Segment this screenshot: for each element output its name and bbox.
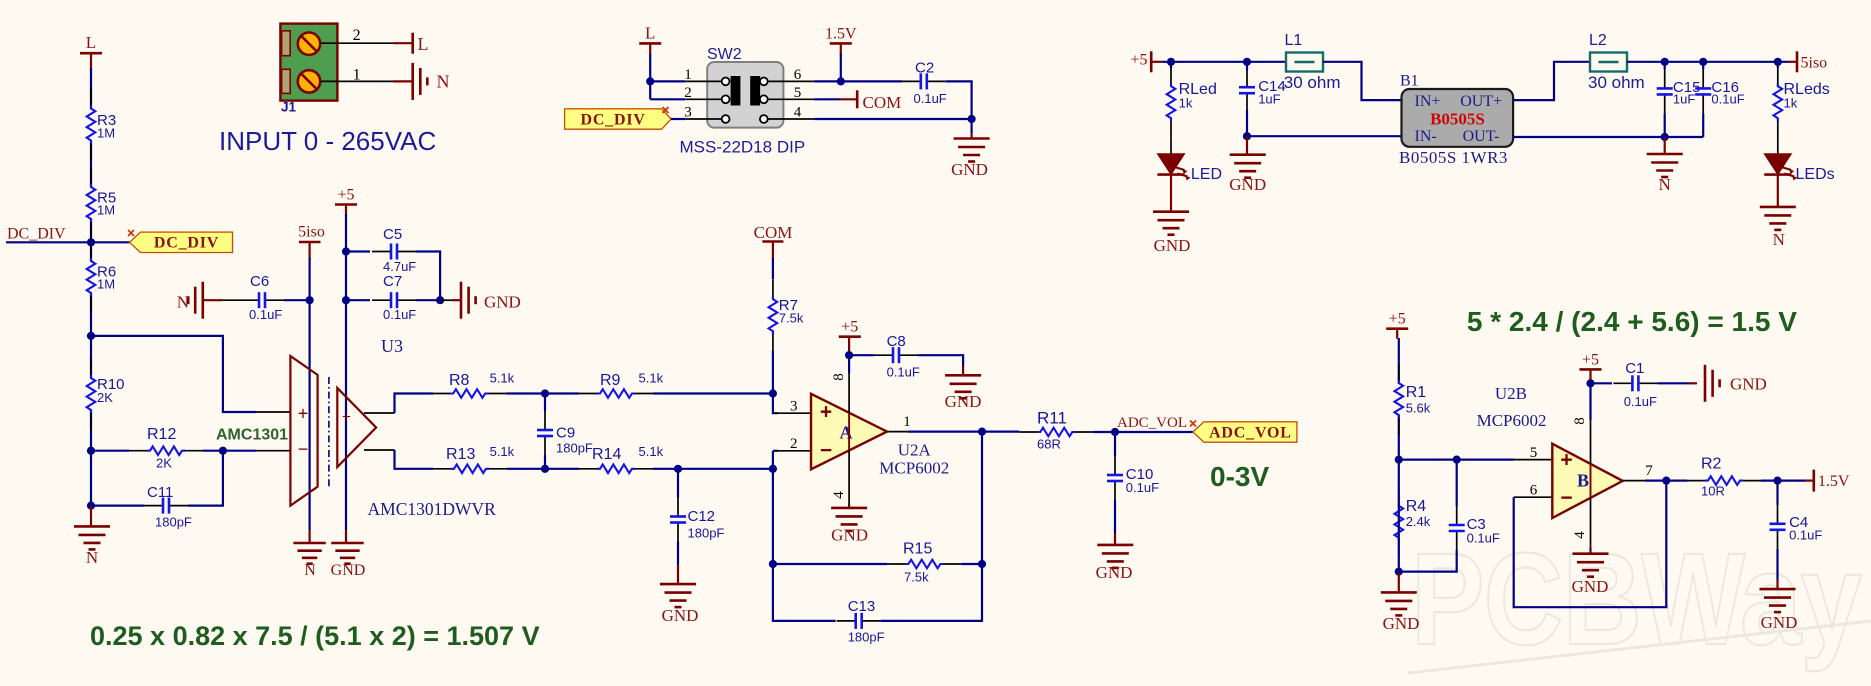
svg-text:8: 8	[831, 373, 847, 381]
svg-text:R9: R9	[600, 372, 621, 389]
svg-text:4: 4	[794, 105, 802, 121]
svg-text:GND: GND	[662, 606, 699, 625]
svg-text:R1: R1	[1406, 384, 1427, 401]
svg-text:5.1k: 5.1k	[639, 444, 664, 459]
svg-text:1k: 1k	[1784, 96, 1798, 111]
svg-text:L: L	[645, 23, 655, 42]
svg-text:R2: R2	[1701, 456, 1722, 473]
svg-text:B0505S: B0505S	[1430, 110, 1485, 129]
svg-text:C12: C12	[688, 508, 716, 525]
svg-text:GND: GND	[831, 526, 868, 545]
svg-text:MCP6002: MCP6002	[1477, 411, 1547, 430]
svg-text:2: 2	[353, 27, 361, 44]
svg-text:C6: C6	[250, 273, 269, 290]
svg-text:GND: GND	[1383, 614, 1420, 633]
svg-text:B1: B1	[1400, 73, 1419, 90]
svg-text:GND: GND	[1096, 563, 1133, 582]
svg-text:1: 1	[684, 67, 692, 83]
svg-text:COM: COM	[863, 93, 902, 112]
svg-text:R4: R4	[1406, 498, 1427, 515]
svg-text:4: 4	[831, 491, 847, 499]
svg-text:GND: GND	[945, 392, 982, 411]
svg-text:+5: +5	[841, 319, 858, 336]
svg-text:8: 8	[1572, 417, 1588, 425]
svg-text:7.5k: 7.5k	[779, 311, 804, 326]
svg-text:N: N	[1773, 230, 1785, 249]
svg-text:U2A: U2A	[898, 441, 932, 460]
svg-text:0.1uF: 0.1uF	[914, 91, 947, 106]
svg-text:1k: 1k	[1179, 96, 1193, 111]
svg-text:5: 5	[794, 85, 802, 101]
svg-text:5iso: 5iso	[298, 224, 325, 241]
svg-text:COM: COM	[754, 223, 793, 242]
svg-text:7.5k: 7.5k	[904, 570, 929, 585]
svg-text:ADC_VOL: ADC_VOL	[1117, 415, 1187, 431]
svg-text:7: 7	[1645, 463, 1653, 479]
svg-text:GND: GND	[1572, 577, 1609, 596]
svg-text:2: 2	[790, 436, 798, 452]
svg-text:0.1uF: 0.1uF	[887, 365, 920, 380]
svg-text:DC_DIV: DC_DIV	[580, 111, 645, 128]
svg-text:OUT-: OUT-	[1463, 128, 1500, 145]
svg-text:0.1uF: 0.1uF	[249, 307, 282, 322]
svg-text:N: N	[86, 548, 98, 567]
svg-text:AMC1301: AMC1301	[216, 427, 288, 444]
svg-text:1: 1	[353, 67, 361, 84]
svg-text:MSS-22D18 DIP: MSS-22D18 DIP	[680, 138, 806, 157]
svg-text:0-3V: 0-3V	[1210, 461, 1269, 492]
svg-text:L2: L2	[1589, 32, 1607, 49]
svg-text:180pF: 180pF	[688, 526, 725, 541]
svg-text:0.1uF: 0.1uF	[383, 307, 416, 322]
svg-text:6: 6	[794, 67, 802, 83]
svg-text:3: 3	[790, 399, 798, 415]
svg-text:5 * 2.4 / (2.4 + 5.6) = 1.5 V: 5 * 2.4 / (2.4 + 5.6) = 1.5 V	[1467, 306, 1797, 337]
svg-text:GND: GND	[1761, 613, 1798, 632]
svg-text:30 ohm: 30 ohm	[1284, 73, 1341, 92]
svg-text:+5: +5	[337, 187, 354, 204]
svg-text:0.1uF: 0.1uF	[1624, 394, 1657, 409]
svg-text:5iso: 5iso	[1801, 55, 1828, 72]
svg-text:5: 5	[1530, 445, 1538, 461]
svg-text:+: +	[820, 401, 832, 424]
svg-text:6: 6	[1530, 483, 1538, 499]
svg-text:L1: L1	[1285, 32, 1303, 49]
svg-text:5.1k: 5.1k	[639, 371, 664, 386]
svg-text:2K: 2K	[156, 456, 172, 471]
svg-text:0.1uF: 0.1uF	[1126, 480, 1159, 495]
svg-text:1.5V: 1.5V	[1818, 473, 1850, 490]
svg-text:R8: R8	[449, 372, 470, 389]
svg-text:2: 2	[684, 85, 692, 101]
svg-text:MCP6002: MCP6002	[879, 459, 949, 478]
svg-text:R12: R12	[147, 426, 176, 443]
svg-text:N: N	[437, 72, 450, 92]
svg-text:J1: J1	[281, 100, 297, 115]
svg-text:LEDs: LEDs	[1796, 166, 1835, 183]
svg-text:−: −	[298, 439, 309, 459]
svg-text:R13: R13	[446, 446, 475, 463]
svg-text:PCBWay: PCBWay	[1411, 525, 1862, 672]
svg-text:1: 1	[903, 414, 911, 430]
svg-text:68R: 68R	[1037, 437, 1061, 452]
svg-text:0.1uF: 0.1uF	[1711, 92, 1744, 107]
svg-text:INPUT 0 - 265VAC: INPUT 0 - 265VAC	[219, 126, 436, 156]
svg-text:C2: C2	[915, 60, 934, 77]
svg-text:0.25 x 0.82 x 7.5 / (5.1 x 2): 0.25 x 0.82 x 7.5 / (5.1 x 2) = 1.507 V	[90, 621, 540, 651]
svg-text:GND: GND	[1229, 175, 1266, 194]
svg-text:C9: C9	[556, 425, 575, 442]
svg-text:+5: +5	[1130, 52, 1147, 69]
svg-text:4.7uF: 4.7uF	[383, 259, 416, 274]
svg-text:DC_DIV: DC_DIV	[7, 226, 66, 243]
svg-text:+5: +5	[1389, 311, 1406, 328]
svg-text:IN+: IN+	[1415, 93, 1441, 110]
svg-text:1M: 1M	[97, 203, 115, 218]
svg-text:3: 3	[684, 105, 692, 121]
svg-text:4: 4	[1572, 531, 1588, 539]
svg-text:L: L	[418, 34, 429, 54]
svg-text:0.1uF: 0.1uF	[1467, 531, 1500, 546]
svg-text:2K: 2K	[97, 390, 113, 405]
svg-text:ADC_VOL: ADC_VOL	[1209, 424, 1292, 441]
svg-text:2.4k: 2.4k	[1406, 514, 1431, 529]
svg-text:C11: C11	[147, 484, 173, 501]
svg-text:GND: GND	[484, 293, 521, 312]
svg-text:B: B	[1577, 471, 1589, 491]
svg-text:GND: GND	[1730, 375, 1767, 394]
svg-text:GND: GND	[331, 562, 366, 579]
svg-text:N: N	[177, 293, 189, 312]
svg-text:GND: GND	[951, 160, 988, 179]
svg-text:OUT+: OUT+	[1460, 93, 1502, 110]
svg-text:C7: C7	[383, 273, 402, 290]
svg-text:C13: C13	[848, 598, 876, 615]
svg-text:R14: R14	[592, 446, 621, 463]
svg-text:A: A	[840, 423, 853, 443]
svg-text:180pF: 180pF	[155, 515, 192, 530]
svg-text:5.1k: 5.1k	[490, 371, 515, 386]
svg-text:+5: +5	[1582, 351, 1599, 368]
svg-text:SW2: SW2	[707, 46, 742, 63]
svg-text:0.1uF: 0.1uF	[1789, 528, 1822, 543]
svg-text:IN-: IN-	[1415, 128, 1437, 145]
svg-text:5.1k: 5.1k	[490, 444, 515, 459]
svg-text:N: N	[1659, 175, 1671, 194]
svg-text:1M: 1M	[97, 277, 115, 292]
svg-text:+: +	[342, 409, 351, 426]
svg-text:N: N	[304, 562, 316, 579]
svg-text:10R: 10R	[1701, 484, 1725, 499]
svg-text:L: L	[86, 33, 96, 52]
svg-text:1M: 1M	[97, 126, 115, 141]
svg-text:180pF: 180pF	[848, 630, 885, 645]
svg-text:+: +	[298, 404, 309, 424]
svg-text:−: −	[820, 439, 832, 462]
svg-text:−: −	[1560, 487, 1572, 510]
svg-text:1uF: 1uF	[1673, 92, 1695, 107]
svg-text:GND: GND	[1154, 236, 1191, 255]
svg-text:180pF: 180pF	[556, 441, 593, 456]
svg-text:B0505S 1WR3: B0505S 1WR3	[1399, 148, 1508, 167]
svg-text:LED: LED	[1191, 166, 1222, 183]
svg-text:C8: C8	[887, 333, 906, 350]
svg-text:R11: R11	[1037, 409, 1067, 428]
svg-text:1uF: 1uF	[1258, 92, 1280, 107]
svg-text:+: +	[1560, 449, 1572, 472]
svg-text:5.6k: 5.6k	[1406, 401, 1431, 416]
svg-text:30 ohm: 30 ohm	[1588, 73, 1645, 92]
svg-text:C5: C5	[383, 226, 402, 243]
svg-text:U3: U3	[381, 336, 403, 356]
svg-text:R15: R15	[903, 541, 932, 558]
svg-text:AMC1301DWVR: AMC1301DWVR	[368, 499, 497, 519]
svg-text:DC_DIV: DC_DIV	[154, 235, 219, 252]
svg-text:1.5V: 1.5V	[825, 25, 857, 42]
svg-text:U2B: U2B	[1495, 384, 1527, 403]
svg-text:C1: C1	[1625, 360, 1644, 377]
